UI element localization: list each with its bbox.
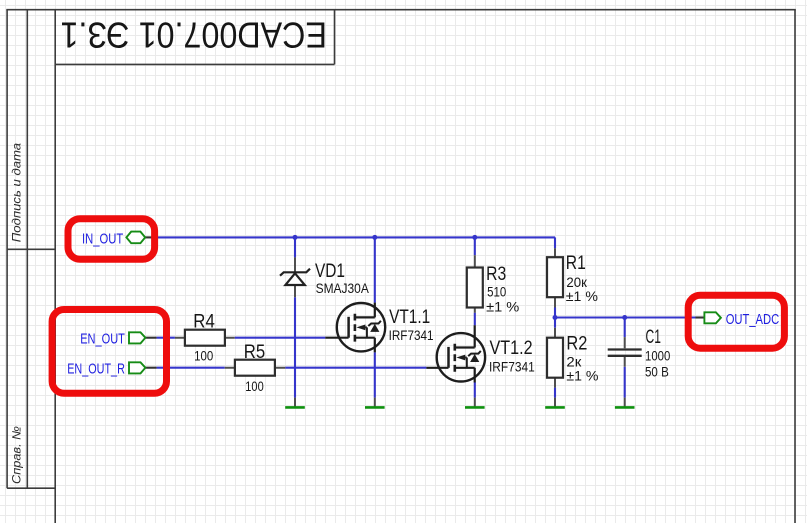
wire R2 bottom to ground bbox=[554, 388, 556, 398]
wire IN_OUT main horizontal bbox=[154, 236, 555, 238]
wire VT1.1 source to ground bbox=[374, 352, 376, 397]
ground (VT1.1) bbox=[365, 398, 385, 408]
wire VD1 top branch bbox=[294, 237, 296, 257]
svg-text:R5: R5 bbox=[244, 342, 265, 363]
resistor R1 bbox=[547, 248, 563, 307]
wire VT1.1 drain branch bbox=[374, 237, 376, 302]
svg-text:1000: 1000 bbox=[645, 348, 670, 364]
junction node R1/R2/OUT_ADC bbox=[553, 315, 558, 320]
port IN_OUT (bidirectional) bbox=[126, 232, 154, 244]
svg-text:Подпись и дата: Подпись и дата bbox=[9, 143, 23, 243]
svg-text:Справ. №: Справ. № bbox=[9, 426, 23, 484]
port EN_OUT (input) bbox=[129, 332, 157, 343]
wire node to R2 top bbox=[554, 318, 556, 328]
port OUT_ADC (output) bbox=[696, 312, 721, 323]
highlight box EN_OUT/EN_OUT_R bbox=[52, 310, 166, 394]
svg-text:R2: R2 bbox=[566, 333, 587, 354]
ground (VD1) bbox=[285, 398, 305, 408]
svg-text:IN_OUT: IN_OUT bbox=[82, 230, 123, 247]
capacitor C1 bbox=[608, 337, 642, 367]
svg-text:EN_OUT_R: EN_OUT_R bbox=[67, 361, 125, 378]
wire R5 to VT1.2 gate bbox=[285, 367, 426, 369]
wire C1 top bbox=[624, 318, 626, 338]
wire EN_OUT_R to R5 bbox=[157, 367, 225, 369]
highlight box OUT_ADC bbox=[688, 295, 784, 348]
ground (R2) bbox=[545, 398, 565, 408]
svg-text:50 В: 50 В bbox=[645, 364, 669, 380]
svg-text:±1 %: ±1 % bbox=[486, 298, 519, 314]
wire VT1.2 source to ground bbox=[474, 382, 476, 397]
wire R3 top branch bbox=[474, 237, 476, 255]
port EN_OUT_R (input) bbox=[129, 362, 157, 373]
svg-text:510: 510 bbox=[487, 283, 506, 299]
svg-text:EN_OUT: EN_OUT bbox=[80, 331, 125, 348]
junction node IN_OUT/VT1.1 bbox=[372, 235, 377, 240]
wire to R1 top bbox=[554, 237, 556, 248]
transistor VT1.2 bbox=[426, 325, 485, 382]
resistor R4 bbox=[175, 330, 235, 346]
wire R1 bottom to node bbox=[554, 308, 556, 318]
wire R3 bottom to VT1.2 drain bbox=[474, 313, 476, 326]
svg-text:R1: R1 bbox=[566, 253, 586, 274]
junction node IN_OUT/R3 bbox=[472, 235, 477, 240]
svg-text:IRF7341: IRF7341 bbox=[389, 327, 434, 343]
resistor R5 bbox=[225, 360, 286, 376]
ground (VT1.2) bbox=[465, 398, 485, 408]
highlight box IN_OUT bbox=[68, 219, 155, 260]
ground (C1) bbox=[615, 398, 635, 408]
svg-text:R4: R4 bbox=[193, 311, 215, 332]
svg-text:100: 100 bbox=[245, 378, 264, 394]
svg-text:ECAD007.01 ЭЗ.1: ECAD007.01 ЭЗ.1 bbox=[60, 14, 327, 55]
resistor R3 bbox=[467, 255, 483, 313]
wire R4 to VT1.1 gate bbox=[235, 337, 326, 339]
svg-text:R3: R3 bbox=[486, 264, 506, 285]
svg-text:±1 %: ±1 % bbox=[566, 367, 598, 383]
diode VD1 (TVS zener) bbox=[280, 257, 310, 297]
wire EN_OUT to R4 bbox=[157, 337, 175, 339]
svg-text:±1 %: ±1 % bbox=[566, 288, 598, 304]
svg-text:VT1.2: VT1.2 bbox=[490, 338, 533, 359]
wire C1 bottom to ground bbox=[624, 367, 626, 398]
transistor VT1.1 bbox=[325, 303, 385, 353]
svg-text:OUT_ADC: OUT_ADC bbox=[726, 311, 780, 328]
svg-text:IRF7341: IRF7341 bbox=[489, 358, 535, 374]
junction node IN_OUT/VD1 bbox=[293, 235, 298, 240]
svg-text:SMAJ30A: SMAJ30A bbox=[316, 280, 370, 296]
svg-text:C1: C1 bbox=[646, 327, 661, 348]
junction node C1/OUT_ADC bbox=[622, 315, 627, 320]
resistor R2 bbox=[547, 328, 563, 388]
svg-text:VT1.1: VT1.1 bbox=[389, 307, 430, 328]
svg-text:VD1: VD1 bbox=[315, 261, 345, 282]
wire VD1 bottom to ground bbox=[294, 297, 296, 397]
svg-text:100: 100 bbox=[194, 347, 213, 363]
wire OUT_ADC horizontal bbox=[555, 316, 696, 318]
